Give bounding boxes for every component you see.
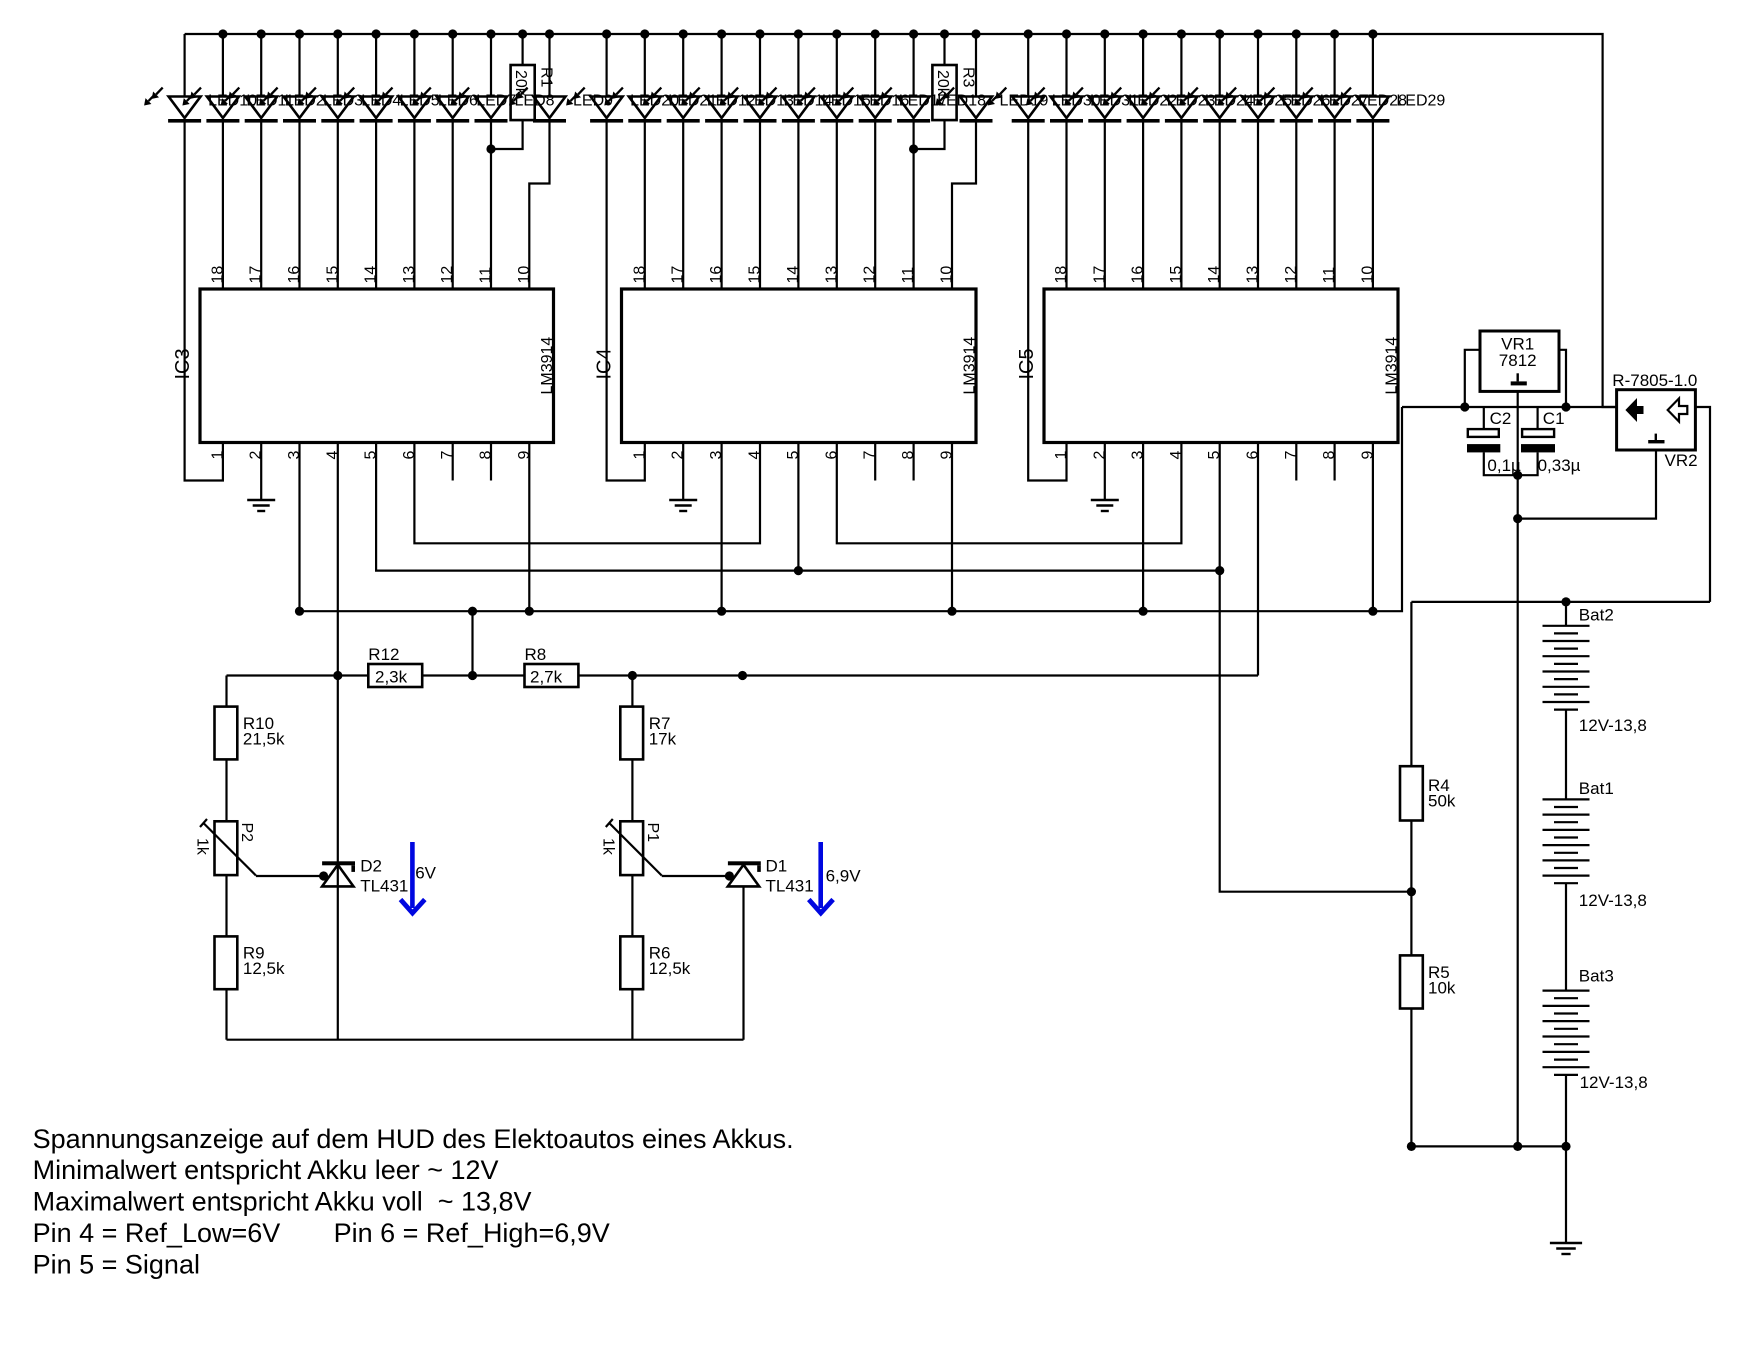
voltage regulator VR2 R-7805-1.0 [1612,371,1697,470]
svg-text:2,3k: 2,3k [375,668,408,687]
wire IC4 pin6 to IC5 pin4 [837,443,1182,544]
svg-text:17: 17 [1091,266,1108,284]
svg-text:R3: R3 [959,67,976,88]
svg-text:1k: 1k [194,838,211,856]
wire VR1 output pin to C2/V+ [1465,350,1480,407]
wire LED10 cathode L to IC3 pin1 [185,121,223,481]
junction dots on top bus [218,29,1377,38]
svg-text:12V-13,8: 12V-13,8 [1580,1073,1648,1092]
wire 12V rail to VR2 [1402,406,1617,408]
wire V+ bus (pins 3 and 9) [300,407,1403,676]
wire LED30 cathode L to IC5 pin1 [1028,121,1066,481]
wire left divider column [225,676,227,1040]
wire LED19 jog to IC4 pin10 [952,121,976,289]
resistor R6 12,5k [620,936,690,989]
junction D1 ref [725,871,734,880]
potentiometer P2 1k [194,819,256,876]
LED LED4 [297,34,354,123]
wire battery + rail [1411,601,1710,603]
wire LED cathodes group2 straight to IC4 pins 18-11 [645,121,914,289]
op-amp/IC IC5 LM3914 [1016,289,1401,443]
svg-text:16: 16 [1130,266,1147,284]
svg-text:10: 10 [516,266,533,284]
wire IC3 pin8 stub [490,443,492,481]
svg-text:0,33µ: 0,33µ [1538,456,1581,475]
junction R4/R5/signal [1407,887,1416,896]
wire IC4 pin8 stub [912,443,914,481]
LED LED11 [182,34,239,123]
svg-text:14: 14 [1206,266,1223,284]
svg-text:16: 16 [708,266,725,284]
pin numbers IC5 top 18-10 [1053,266,1376,284]
svg-text:14: 14 [785,266,802,284]
LED LED5 [336,34,393,123]
svg-text:20k: 20k [512,70,529,97]
svg-text:R8: R8 [525,645,547,664]
svg-text:IC3: IC3 [172,348,194,379]
ground IC5 pin2 [1091,500,1119,511]
LED LED13 [681,34,738,123]
wire signal net pin5 rail [376,443,1220,571]
junction VR2 ground link [1513,514,1522,523]
wire R4-R5 node [1410,821,1412,956]
capacitor C1 0,33u [1518,407,1581,475]
svg-text:Bat3: Bat3 [1579,967,1614,986]
svg-text:50k: 50k [1428,792,1456,811]
LED LED2 [221,34,278,123]
LED LED25 [1179,34,1236,123]
junction dots bottom ground rail [1407,1142,1571,1151]
battery Bat2 [1543,626,1590,710]
wire IC4 pin7 stub [874,443,876,481]
wire IC3 pin2 to ground [260,443,262,501]
resistor R8 2,7k [525,645,579,687]
svg-text:R-7805-1.0: R-7805-1.0 [1612,371,1697,390]
LED LED31 [1026,34,1083,123]
junction dots on ref row [333,671,747,680]
svg-text:1: 1 [209,451,226,460]
junction IC5 pin5 on signal rail [1215,566,1224,575]
LED LED14 [720,34,777,123]
resistor R9 12,5k [215,936,285,989]
wire +LED supply top bus [185,34,1617,407]
blue arrow 6,9V [809,842,833,913]
wire IC3 pin4 Ref_Low column through D2 [337,443,339,1040]
wire D1 anode down [742,886,744,1039]
svg-text:1: 1 [1053,451,1070,460]
svg-text:Pin 5 = Signal: Pin 5 = Signal [33,1249,200,1279]
wire LED cathodes group1 straight to IC3 pins 18-11 [223,121,491,289]
LED LED21 [604,34,661,123]
capacitor C2 0,1u [1467,407,1521,475]
wire LED9 jog to IC3 pin10 [529,121,549,289]
TL431 D1 [728,857,814,896]
LED LED3 [259,34,316,123]
junction VR1 out / C2 [1460,402,1469,411]
junction VR1 in / C1 / battery [1561,402,1570,411]
wire bottom ground rail [1411,1145,1566,1147]
svg-text:Pin 4 = Ref_Low=6V: Pin 4 = Ref_Low=6V [33,1218,281,1248]
svg-text:17k: 17k [649,730,677,749]
wire right divider column [631,676,633,1040]
svg-text:P1: P1 [644,823,661,843]
junction D2 ref [319,871,328,880]
svg-text:18: 18 [209,266,226,284]
svg-text:2,7k: 2,7k [530,668,563,687]
svg-text:Pin 6 = Ref_High=6,9V: Pin 6 = Ref_High=6,9V [334,1218,610,1248]
TL431 D2 [322,857,408,896]
svg-text:10: 10 [1359,266,1376,284]
svg-text:13: 13 [1245,266,1262,284]
ground IC4 pin2 [669,500,697,511]
svg-text:C1: C1 [1543,409,1565,428]
svg-text:11: 11 [900,267,917,284]
wire P2 wiper to D2 ref [256,875,324,877]
svg-text:Maximalwert entspricht Akku vo: Maximalwert entspricht Akku voll ~ 13,8V [33,1187,532,1217]
op-amp/IC IC4 LM3914 [594,289,979,443]
resistor R1 20k [491,34,555,149]
svg-text:LM3914: LM3914 [1384,337,1401,395]
LED LED26 [1218,34,1275,123]
junction R3 to pin11 line [909,144,918,153]
svg-text:Minimalwert entspricht Akku le: Minimalwert entspricht Akku leer ~ 12V [33,1155,499,1185]
svg-text:17: 17 [670,266,687,284]
wire R5 to ground rail [1410,1009,1412,1147]
svg-text:15: 15 [747,266,764,284]
svg-text:15: 15 [1168,266,1185,284]
wire IC3 pin6 to IC4 pin4 [414,443,760,544]
svg-text:C2: C2 [1490,409,1512,428]
battery Bat3 [1543,991,1590,1075]
svg-text:P2: P2 [238,823,255,843]
svg-text:IC5: IC5 [1016,348,1038,379]
LED LED6 [374,34,431,123]
note text block [33,1124,794,1280]
wire VR2 ground link [1518,450,1656,519]
svg-text:LM3914: LM3914 [962,337,979,395]
LED LED15 [758,34,815,123]
voltage regulator VR1 7812 [1480,331,1559,391]
LED LED20 [566,34,623,123]
wire LED20 cathode L to IC4 pin1 [607,121,645,481]
svg-text:10k: 10k [1428,979,1456,998]
junction IC4 pin5 on signal rail [794,566,803,575]
svg-text:12: 12 [862,266,879,284]
wire VR2 input pin right [1695,407,1710,602]
svg-text:Bat1: Bat1 [1579,779,1614,798]
resistor R12 2,3k [368,645,422,687]
LED LED23 [1103,34,1160,123]
wire Ref row with R12/R8 [227,443,1259,676]
svg-text:11: 11 [478,267,495,284]
LED LED8 [451,34,508,123]
svg-text:21,5k: 21,5k [243,730,285,749]
wire IC5 pin5 down to battery divider [1220,443,1412,892]
LED LED16 [796,34,853,123]
LED LED7 [412,34,469,123]
resistor R4 50k [1400,602,1456,821]
LED LED22 [1064,34,1121,123]
svg-text:R1: R1 [538,67,555,88]
junction R1 to pin11 line [486,144,495,153]
svg-text:12V-13,8: 12V-13,8 [1579,716,1647,735]
junction dots on V+ bus [295,607,1378,616]
pin numbers IC4 bottom 1-9 [631,451,955,460]
svg-text:14: 14 [363,266,380,284]
svg-text:12,5k: 12,5k [243,959,285,978]
svg-text:13: 13 [823,266,840,284]
wire IC3 pin7 stub [452,443,454,481]
svg-text:LED29: LED29 [1396,93,1445,110]
LED LED18 [873,34,930,123]
wire to main ground [1565,1146,1567,1243]
LED LED27 [1256,34,1313,123]
svg-text:Spannungsanzeige auf dem HUD d: Spannungsanzeige auf dem HUD des Elektoa… [33,1124,794,1154]
pin numbers IC5 bottom 1-9 [1053,451,1376,460]
LED LED10 [144,34,201,123]
svg-text:6,9V: 6,9V [826,867,862,886]
pin numbers IC4 top 18-10 [631,266,955,284]
wire VR1 ground pin down [1517,391,1519,1146]
svg-text:VR2: VR2 [1665,451,1698,470]
wire LED cathodes group3 straight to IC5 pins 18-10 [1067,121,1373,289]
wire IC5 pin7 stub [1295,443,1297,481]
svg-text:IC4: IC4 [594,348,616,379]
svg-text:R12: R12 [368,645,399,664]
LED LED30 [988,34,1045,123]
resistor R10 21,5k [215,707,285,760]
ground IC3 pin2 [247,500,275,511]
svg-text:15: 15 [324,266,341,284]
svg-text:12V-13,8: 12V-13,8 [1579,891,1647,910]
battery Bat1 [1543,799,1590,883]
LED LED28 [1294,34,1351,123]
svg-text:Bat2: Bat2 [1579,606,1614,625]
svg-text:6V: 6V [415,864,436,883]
svg-text:LM3914: LM3914 [539,337,556,395]
blue arrow 6V [401,842,425,913]
svg-text:20k: 20k [934,70,951,97]
wire IC5 pin2 to ground [1104,443,1106,501]
wire IC5 pin8 stub [1333,443,1335,481]
resistor R3 20k [914,34,977,149]
svg-text:D1: D1 [766,857,788,876]
svg-text:16: 16 [286,266,303,284]
svg-text:18: 18 [1053,266,1070,284]
svg-text:13: 13 [401,266,418,284]
svg-text:1: 1 [631,451,648,460]
svg-text:17: 17 [248,266,265,284]
svg-text:11: 11 [1321,267,1338,284]
LED LED19 [936,34,993,123]
junction C1/C2 ground [1513,471,1522,480]
LED LED24 [1141,34,1198,123]
svg-text:D2: D2 [360,857,382,876]
svg-text:18: 18 [631,266,648,284]
LED LED29 [1332,34,1389,123]
LED LED12 [643,34,700,123]
pin numbers IC3 bottom 1-9 [209,451,532,460]
svg-text:10: 10 [939,266,956,284]
svg-text:TL431: TL431 [766,877,814,896]
svg-text:12,5k: 12,5k [649,959,691,978]
pin numbers IC3 top 18-10 [209,266,532,284]
wire IC4 pin2 to ground [682,443,684,501]
resistor R5 10k [1400,955,1456,1008]
wire VR1 input pin to C1/battery [1559,350,1566,407]
LED LED9 [509,34,566,123]
LED LED17 [835,34,892,123]
svg-text:12: 12 [439,266,456,284]
potentiometer P1 1k [599,819,661,876]
svg-text:1k: 1k [599,838,616,856]
ground main [1550,1243,1582,1254]
svg-text:TL431: TL431 [360,877,408,896]
resistor R7 17k [620,707,676,760]
junction battery + [1561,597,1570,606]
svg-text:7812: 7812 [1499,351,1537,370]
wire P1 wiper to D1 ref [662,875,730,877]
wire battery stack column [1565,602,1567,1147]
wire bottom of reference network [227,1039,744,1041]
svg-text:12: 12 [1283,266,1300,284]
op-amp/IC IC3 LM3914 [172,289,556,443]
